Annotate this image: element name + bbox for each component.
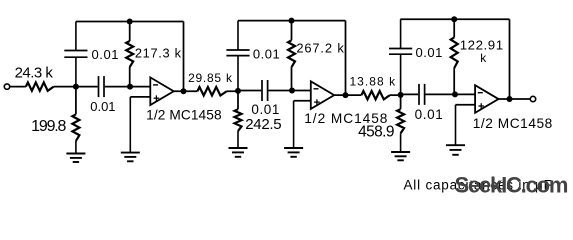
svg-text:0.01: 0.01 bbox=[251, 102, 280, 117]
svg-text:13.88 k: 13.88 k bbox=[349, 74, 396, 88]
svg-text:0.01: 0.01 bbox=[415, 107, 444, 122]
svg-text:217.3 k: 217.3 k bbox=[135, 46, 182, 61]
svg-text:0.01: 0.01 bbox=[415, 45, 443, 60]
svg-text:1/2 MC1458: 1/2 MC1458 bbox=[146, 108, 222, 123]
svg-text:0.01: 0.01 bbox=[253, 47, 281, 62]
svg-text:0.01: 0.01 bbox=[92, 47, 120, 62]
svg-text:29.85 k: 29.85 k bbox=[188, 71, 233, 85]
svg-text:1/2 MC1458: 1/2 MC1458 bbox=[473, 116, 553, 131]
svg-text:0.01: 0.01 bbox=[90, 99, 115, 114]
svg-text:SeekIC.com: SeekIC.com bbox=[455, 173, 568, 198]
svg-text:267.2 k: 267.2 k bbox=[296, 40, 344, 55]
svg-text:242.5: 242.5 bbox=[245, 116, 281, 133]
svg-text:458.9: 458.9 bbox=[358, 124, 394, 141]
svg-text:199.8: 199.8 bbox=[31, 118, 66, 135]
svg-text:24.3 k: 24.3 k bbox=[15, 65, 54, 82]
svg-text:k: k bbox=[480, 51, 487, 65]
